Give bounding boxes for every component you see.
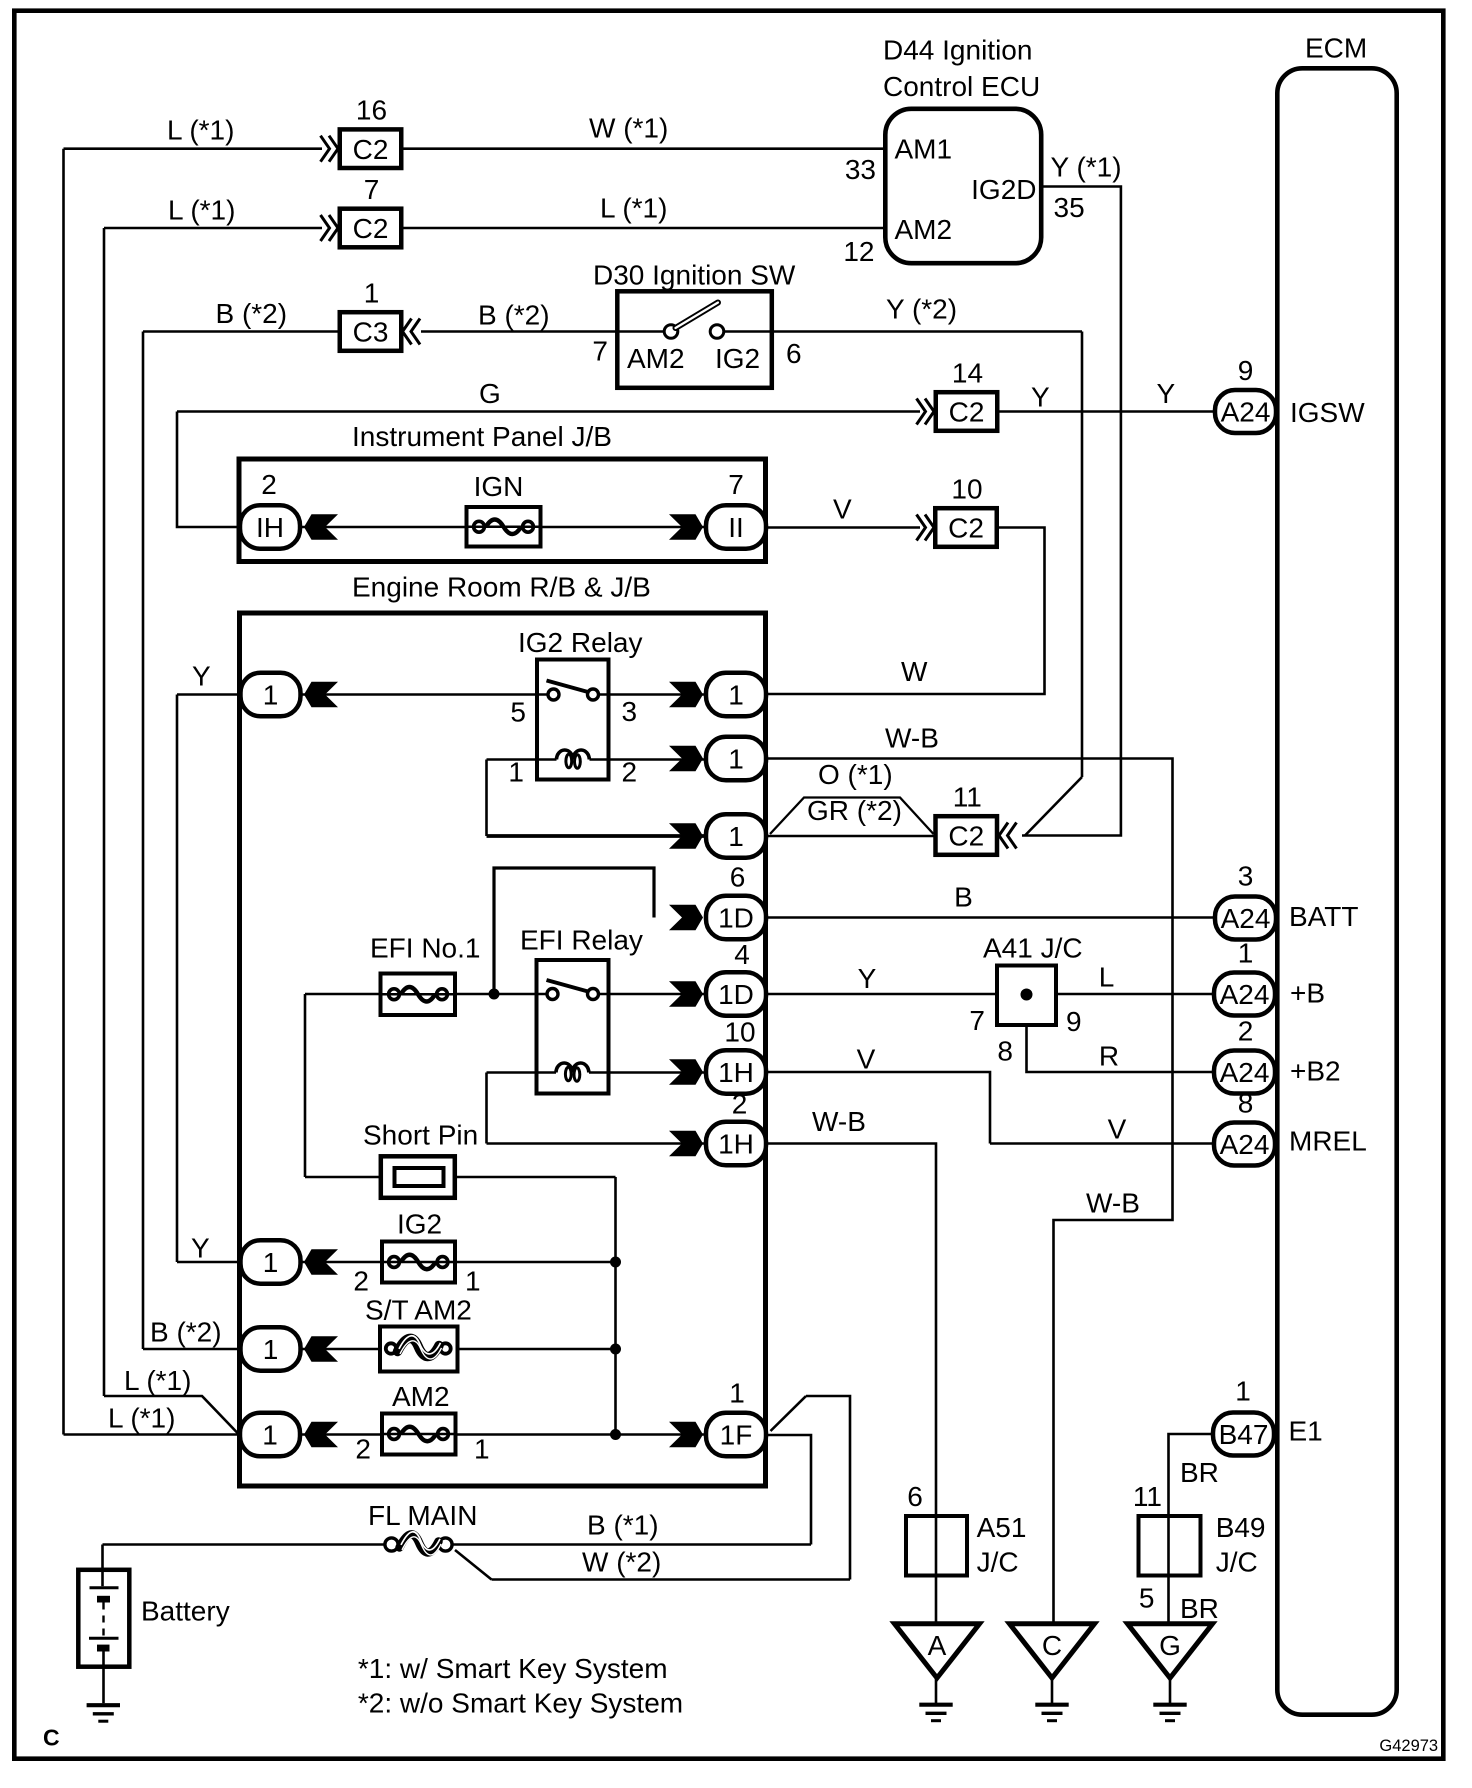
svg-text:1: 1 <box>364 278 380 309</box>
ground triangle C <box>1010 1624 1095 1678</box>
svg-text:V: V <box>1108 1114 1127 1145</box>
oval connector 1 row 3 O/GR <box>706 814 766 858</box>
svg-text:4: 4 <box>734 939 750 970</box>
arrow into oval 1D pin 6 <box>669 905 703 931</box>
svg-text:V: V <box>833 494 852 525</box>
svg-text:A51: A51 <box>977 1512 1027 1543</box>
wire L (*1) diagonal into AM2 oval <box>104 1396 238 1434</box>
wire IG2 relay coil pin 2 to oval 1 (W-B row) <box>590 758 707 761</box>
oval connector II pin 7 <box>706 505 766 549</box>
Engine Room R/B and J/B block <box>240 613 766 1486</box>
wire W (*2) FL MAIN to 1F oval via diagonal <box>455 1550 492 1580</box>
svg-text:6: 6 <box>730 862 746 893</box>
svg-text:IG2 Relay: IG2 Relay <box>518 627 643 658</box>
svg-text:Battery: Battery <box>141 1596 230 1627</box>
wire S/T AM2 to bus junction <box>455 1348 616 1351</box>
relay IG2 coil <box>557 750 590 760</box>
wire IH oval to IGN fuse <box>301 526 465 529</box>
svg-text:1D: 1D <box>718 903 754 934</box>
svg-text:W-B: W-B <box>812 1106 866 1137</box>
svg-text:35: 35 <box>1054 192 1085 223</box>
ground triangle A <box>895 1624 980 1678</box>
svg-text:1: 1 <box>263 680 279 711</box>
short pin <box>381 1156 455 1198</box>
svg-text:BR: BR <box>1180 1593 1219 1624</box>
wire BR ECM B47 pin 1 E1 to B49 J/C and ground G <box>1169 1434 1212 1626</box>
svg-text:+B2: +B2 <box>1290 1056 1341 1087</box>
svg-text:Y (*2): Y (*2) <box>886 294 957 325</box>
connector C2 pin 14 <box>917 399 926 425</box>
arrow into oval 1F <box>669 1422 703 1448</box>
svg-text:C3: C3 <box>353 317 389 348</box>
svg-text:A24: A24 <box>1220 1129 1270 1160</box>
wire G from instrument panel IH to connector C2-14 <box>177 410 920 413</box>
oval connector 1 IG2 row <box>241 1240 301 1284</box>
svg-text:IG2: IG2 <box>397 1209 442 1240</box>
wire IG2 relay coil pin 1 down to oval 1 (O/GR row) <box>487 758 557 761</box>
oval ECM A24 pin 3 BATT <box>1215 897 1276 940</box>
svg-text:C2: C2 <box>948 821 984 852</box>
svg-text:16: 16 <box>356 95 387 126</box>
oval ECM A24 pin 2 +B2 <box>1214 1051 1275 1094</box>
svg-text:W-B: W-B <box>885 723 939 754</box>
svg-text:D30 Ignition SW: D30 Ignition SW <box>593 259 796 290</box>
svg-text:IGSW: IGSW <box>1290 397 1365 428</box>
junction A51 J/C <box>906 1516 967 1576</box>
svg-text:2: 2 <box>355 1434 371 1465</box>
svg-text:AM2: AM2 <box>895 214 953 245</box>
svg-text:B: B <box>954 882 973 913</box>
svg-text:C: C <box>1042 1630 1062 1661</box>
oval connector 1 AM2 row <box>240 1413 300 1457</box>
wire EFI relay coil pin 10 to 1H oval <box>589 1071 706 1074</box>
svg-text:ECM: ECM <box>1305 33 1367 64</box>
D30 switch contacts and lever <box>664 325 678 339</box>
svg-text:3: 3 <box>1238 861 1254 892</box>
svg-text:IH: IH <box>256 512 284 543</box>
svg-text:G: G <box>1159 1630 1181 1661</box>
wire Y (*2) D30 ignition switch IG2 pin 6 toward connector C2-11 <box>724 330 1083 333</box>
wire EFI relay output to 1D pin 4 <box>599 993 707 996</box>
svg-text:1: 1 <box>465 1266 481 1297</box>
svg-text:11: 11 <box>1133 1481 1162 1512</box>
oval connector 1 row 2 W-B <box>706 737 766 781</box>
wire L (*1) from AM2 junction to connector C2-16 <box>64 147 323 150</box>
wire EFI No.1 fuse feed <box>305 993 382 996</box>
svg-text:Y (*1): Y (*1) <box>1051 152 1122 183</box>
arrow into right oval 1 row 1 <box>669 682 703 708</box>
svg-text:6: 6 <box>907 1481 923 1512</box>
svg-text:J/C: J/C <box>1216 1547 1258 1578</box>
relay EFI coil <box>556 1063 589 1073</box>
junction dot IG2 fuse bus <box>610 1257 621 1268</box>
svg-text:Y: Y <box>192 661 211 692</box>
oval connector 1 S/T AM2 row <box>241 1327 301 1371</box>
wire IGN fuse to II oval <box>540 526 705 529</box>
junction dot S/T AM2 bus <box>610 1344 621 1355</box>
fuse IGN <box>467 507 541 547</box>
svg-text:1: 1 <box>728 821 744 852</box>
arrow into oval 1 AM2 row <box>304 1422 338 1448</box>
svg-text:A24: A24 <box>1221 903 1271 934</box>
svg-text:AM2: AM2 <box>627 343 685 374</box>
svg-text:1: 1 <box>263 1334 279 1365</box>
svg-text:W-B: W-B <box>1086 1188 1140 1219</box>
connector C2 pin 10 <box>917 515 926 541</box>
svg-text:1: 1 <box>1235 1376 1251 1407</box>
wire V 1H pin 10 down to ECM A24 pin 8 MREL <box>768 1072 991 1144</box>
wire short pin right leg to fuse bus <box>457 1176 616 1179</box>
arrow into left oval 1 row 1 <box>304 682 338 708</box>
svg-text:14: 14 <box>952 358 983 389</box>
connector C2 pin 11 <box>1008 823 1017 849</box>
wire W-B oval 1 down to ground C via jog <box>768 759 1173 1627</box>
wire Y (*1) D44 IG2D pin 35 down to connector C2-11 <box>1022 187 1121 836</box>
svg-text:+B: +B <box>1290 978 1325 1009</box>
svg-text:L (*1): L (*1) <box>124 1365 191 1396</box>
connector C3 pin 1 <box>411 319 420 345</box>
fuse AM2 <box>382 1414 456 1455</box>
svg-text:C2: C2 <box>948 513 984 544</box>
svg-text:1H: 1H <box>718 1057 754 1088</box>
wire B (*1) FL MAIN to 1F oval <box>453 1543 812 1546</box>
svg-text:J/C: J/C <box>977 1547 1019 1578</box>
arrow into oval 1 row 2 <box>669 746 703 772</box>
svg-text:W (*2): W (*2) <box>582 1547 661 1578</box>
svg-text:5: 5 <box>1139 1583 1155 1614</box>
svg-text:Y: Y <box>858 963 877 994</box>
svg-text:B49: B49 <box>1216 1512 1266 1543</box>
svg-text:A24: A24 <box>1220 1057 1270 1088</box>
svg-text:9: 9 <box>1066 1006 1082 1037</box>
svg-text:Y: Y <box>191 1233 210 1264</box>
svg-text:2: 2 <box>1238 1016 1254 1047</box>
oval connector IH pin 2 <box>240 505 300 549</box>
svg-text:L (*1): L (*1) <box>168 195 235 226</box>
D44 Ignition Control ECU block <box>885 109 1041 263</box>
wire B junction to 1D pin 6 <box>494 868 654 994</box>
svg-text:1D: 1D <box>718 979 754 1010</box>
svg-text:O (*1): O (*1) <box>818 759 893 790</box>
svg-text:R: R <box>1099 1041 1119 1072</box>
svg-text:A24: A24 <box>1220 979 1270 1010</box>
svg-text:2: 2 <box>353 1266 369 1297</box>
wire W-B 1H pin 2 down to A51 J/C and ground A <box>768 1144 937 1627</box>
svg-text:A24: A24 <box>1221 397 1271 428</box>
fusible link S/T AM2 <box>380 1327 458 1372</box>
wire R A41 J/C pin 8 to ECM A24 pin 2 +B2 <box>1027 1027 1214 1072</box>
svg-text:7: 7 <box>364 174 380 205</box>
Instrument Panel J/B block <box>239 459 766 562</box>
oval connector 1D pin 6 <box>706 896 766 940</box>
oval ECM A24 pin 9 IGSW <box>1215 390 1276 433</box>
svg-text:L (*1): L (*1) <box>167 115 234 146</box>
oval ECM A24 pin 8 MREL <box>1214 1123 1275 1166</box>
svg-text:L (*1): L (*1) <box>108 1403 175 1434</box>
svg-text:W (*1): W (*1) <box>589 113 668 144</box>
svg-text:AM1: AM1 <box>895 134 953 165</box>
svg-text:Y: Y <box>1031 382 1050 413</box>
svg-text:*1: w/ Smart Key System: *1: w/ Smart Key System <box>358 1653 668 1684</box>
wire B (*2) oval 1 to S/T AM2 fusible link <box>143 1348 240 1351</box>
D30 Ignition SW block <box>617 291 772 388</box>
svg-text:IG2: IG2 <box>715 343 760 374</box>
relay IG2 Relay <box>537 660 609 780</box>
svg-text:2: 2 <box>261 469 277 500</box>
oval ECM B47 pin 1 E1 <box>1213 1413 1274 1456</box>
relay EFI Relay <box>537 960 609 1094</box>
ground below battery <box>87 1703 120 1707</box>
svg-text:1: 1 <box>508 757 524 788</box>
svg-text:B (*2): B (*2) <box>216 298 288 329</box>
svg-text:L: L <box>1099 962 1115 993</box>
wire EFI No.1 fuse to EFI relay pin with junction <box>457 993 549 996</box>
svg-text:Engine Room R/B & J/B: Engine Room R/B & J/B <box>352 571 651 602</box>
wire B 1D pin 6 to ECM A24 pin 3 BATT <box>768 916 1214 919</box>
svg-text:6: 6 <box>786 338 802 369</box>
svg-text:B (*1): B (*1) <box>587 1510 659 1541</box>
wire IG2 fuse pin 1 to bus junction <box>455 1261 616 1264</box>
wire B (*2) connector C3 to left bus <box>143 330 338 333</box>
svg-text:1: 1 <box>728 680 744 711</box>
junction A41 J/C <box>997 966 1056 1026</box>
wire short pin left leg <box>305 1176 380 1179</box>
svg-text:1: 1 <box>262 1420 278 1451</box>
oval connector 1H pin 10 <box>706 1050 766 1094</box>
svg-text:EFI Relay: EFI Relay <box>520 925 643 956</box>
svg-text:*2: w/o Smart Key System: *2: w/o Smart Key System <box>358 1688 683 1719</box>
battery <box>78 1570 129 1667</box>
svg-text:1: 1 <box>728 744 744 775</box>
svg-text:10: 10 <box>951 474 982 505</box>
oval connector 1 right row 1 <box>706 673 766 717</box>
arrow into oval 1 row 3 <box>669 823 703 849</box>
svg-text:G: G <box>479 378 501 409</box>
oval ECM A24 pin 1 +B <box>1214 973 1275 1016</box>
wire W connector C2-10 down to IG2 relay output oval 1 <box>768 528 1045 695</box>
junction B49 J/C <box>1139 1516 1201 1576</box>
svg-text:B (*2): B (*2) <box>150 1317 222 1348</box>
svg-text:E1: E1 <box>1289 1416 1323 1447</box>
ECM block <box>1277 68 1396 1714</box>
connector C2 pin 7 <box>321 215 330 241</box>
oval connector 1D pin 4 <box>706 972 766 1016</box>
svg-text:GR (*2): GR (*2) <box>807 795 902 826</box>
svg-text:2: 2 <box>732 1089 748 1120</box>
svg-text:Short Pin: Short Pin <box>363 1120 478 1151</box>
svg-text:33: 33 <box>845 154 876 185</box>
svg-text:B47: B47 <box>1219 1419 1269 1450</box>
wire W (*1) connector C2-16 to D44 AM1 pin 33 <box>403 147 884 150</box>
wire L (*1) into AM2 oval <box>64 1433 240 1436</box>
svg-text:BATT: BATT <box>1289 901 1358 932</box>
svg-text:3: 3 <box>622 696 638 727</box>
wire L (*1) connector C2-7 to D44 AM2 pin 12 <box>403 227 884 230</box>
wire IG2 relay pin 3 to right oval 1 <box>599 693 707 696</box>
svg-text:A: A <box>928 1630 947 1661</box>
svg-text:Control ECU: Control ECU <box>883 71 1040 102</box>
svg-text:IG2D: IG2D <box>971 174 1036 205</box>
wire Y connector C2-14 to ECM A24 pin 9 IGSW <box>999 410 1213 413</box>
wire L (*1) from AM2 junction to connector C2-7 <box>104 227 322 230</box>
wire Y left oval 1 to IG2 relay pin 5 <box>177 693 240 696</box>
svg-text:10: 10 <box>724 1017 755 1048</box>
junction dot AM2 bus <box>610 1429 621 1440</box>
svg-text:8: 8 <box>997 1036 1013 1067</box>
svg-text:C2: C2 <box>949 397 985 428</box>
oval connector 1F pin 1 <box>706 1413 766 1457</box>
svg-text:2: 2 <box>622 757 638 788</box>
arrow into oval 1D pin 4 <box>669 981 703 1007</box>
svg-text:7: 7 <box>969 1005 985 1036</box>
arrow into IH <box>304 514 338 540</box>
fuse IG2 <box>382 1242 455 1283</box>
svg-text:AM2: AM2 <box>392 1381 450 1412</box>
wire AM2 fuse pin 1 to bus junction and 1F oval <box>455 1433 706 1436</box>
svg-text:B (*2): B (*2) <box>478 300 550 331</box>
wire EFI relay coil to 1H pin 2 <box>487 1071 557 1074</box>
svg-text:A41 J/C: A41 J/C <box>983 933 1083 964</box>
svg-text:Y: Y <box>1157 378 1176 409</box>
arrow into oval 1H pin 10 <box>669 1059 703 1085</box>
arrow into oval 1 IG2 row <box>304 1249 338 1275</box>
svg-text:7: 7 <box>592 336 608 367</box>
junction dot EFI No.1 / EFI relay <box>489 989 500 1000</box>
fusible link FL MAIN <box>385 1538 398 1551</box>
svg-text:EFI No.1: EFI No.1 <box>370 933 480 964</box>
svg-text:1: 1 <box>263 1247 279 1278</box>
wire O (*1) / GR (*2) oval 1 to connector C2-11 with banner <box>768 835 934 838</box>
svg-text:IGN: IGN <box>474 471 524 502</box>
wire battery positive to FL MAIN <box>103 1543 385 1546</box>
wire AM2 oval to AM2 fuse <box>302 1433 382 1436</box>
arrow into II <box>669 514 703 540</box>
svg-text:L (*1): L (*1) <box>600 193 667 224</box>
svg-text:D44 Ignition: D44 Ignition <box>883 35 1032 66</box>
svg-text:1: 1 <box>1238 938 1254 969</box>
svg-text:1H: 1H <box>718 1129 754 1160</box>
wire V II oval pin 7 to connector C2-10 <box>768 526 921 529</box>
svg-text:S/T AM2: S/T AM2 <box>365 1295 472 1326</box>
svg-text:C: C <box>43 1725 60 1751</box>
wire L A41 J/C pin 9 to ECM A24 pin 1 +B <box>1058 993 1213 996</box>
svg-text:II: II <box>728 512 744 543</box>
connector C2 pin 16 <box>321 136 330 162</box>
svg-text:7: 7 <box>728 469 744 500</box>
arrow into oval 1H pin 2 <box>669 1131 703 1157</box>
svg-text:9: 9 <box>1238 355 1254 386</box>
wire Y oval 1 to IG2 fuse row <box>177 1261 240 1264</box>
svg-text:1F: 1F <box>720 1420 753 1451</box>
svg-text:C2: C2 <box>353 213 389 244</box>
svg-text:FL MAIN: FL MAIN <box>368 1500 477 1531</box>
svg-text:8: 8 <box>1238 1088 1254 1119</box>
ground triangle G <box>1128 1624 1213 1678</box>
svg-text:G42973: G42973 <box>1379 1737 1438 1755</box>
svg-text:W: W <box>901 656 928 687</box>
svg-text:Instrument Panel J/B: Instrument Panel J/B <box>352 421 612 452</box>
svg-text:BR: BR <box>1180 1457 1219 1488</box>
svg-text:C2: C2 <box>353 134 389 165</box>
oval connector 1 left row 1 <box>241 673 301 717</box>
fuse EFI No.1 <box>381 974 456 1016</box>
svg-text:11: 11 <box>953 782 982 813</box>
svg-text:12: 12 <box>843 236 874 267</box>
svg-text:5: 5 <box>510 697 526 728</box>
svg-text:V: V <box>857 1044 876 1075</box>
svg-text:1: 1 <box>729 1378 745 1409</box>
svg-text:1: 1 <box>474 1434 490 1465</box>
wire Y 1D pin 4 to junction A41 J/C pin 7 <box>768 993 996 996</box>
arrow into oval 1 S/T AM2 row <box>304 1336 338 1362</box>
wire B (*2) D30 ignition switch AM2 pin 7 to connector C3 <box>421 330 665 333</box>
oval connector 1H pin 2 <box>706 1122 766 1166</box>
svg-text:MREL: MREL <box>1289 1126 1367 1157</box>
